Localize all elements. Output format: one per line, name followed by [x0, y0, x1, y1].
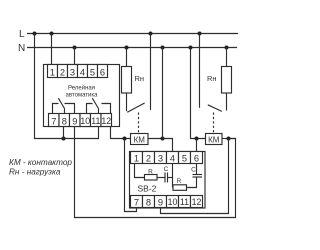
- svg-text:КМ: КМ: [134, 136, 146, 145]
- wire Rn2 to contact: [226, 93, 228, 111]
- svg-text:7: 7: [51, 116, 56, 126]
- SB-2 terminal 1: [131, 152, 143, 164]
- svg-text:C: C: [191, 167, 196, 174]
- junction dot N-A: [73, 46, 77, 50]
- node N label: [18, 43, 25, 54]
- SB-2 terminal 2: [143, 152, 155, 164]
- terminal 6: [98, 65, 108, 78]
- wire N to load Rn1: [126, 48, 128, 67]
- SB-2 terminal 7: [131, 196, 143, 208]
- svg-text:R: R: [177, 178, 182, 185]
- resistor Rn2 label: [207, 74, 217, 83]
- wire KM2 to SB-2 terminal 9: [161, 139, 229, 214]
- relay contact K2 fixed contact (terminal 12): [102, 104, 111, 114]
- contact KM1.1 blade: [127, 103, 144, 112]
- svg-text:1: 1: [134, 154, 139, 164]
- svg-text:11: 11: [91, 116, 100, 126]
- SB-2 terminal 4: [167, 152, 179, 164]
- svg-text:1: 1: [50, 68, 55, 78]
- svg-text:3: 3: [70, 68, 75, 78]
- terminal 5: [88, 65, 98, 78]
- contact KM2.1 fixed lead: [199, 34, 201, 108]
- relay contact K2 blade (terminal 11): [92, 98, 98, 113]
- wire C1 to junction: [168, 177, 173, 179]
- junction dot N drop: [161, 137, 165, 141]
- junction dot N-B: [125, 46, 129, 50]
- wire R1 to C1: [157, 177, 165, 179]
- contact KM2.1 blade: [208, 105, 222, 112]
- svg-text:8: 8: [62, 116, 67, 126]
- legend Rn: [9, 168, 61, 177]
- junction dot N-E: [225, 46, 229, 50]
- wire junction to terminal 4: [172, 164, 174, 178]
- wire L line: [27, 33, 238, 35]
- wire R2 to C2: [187, 177, 197, 188]
- mechanical link KM2 dashed: [213, 113, 215, 134]
- SB-2 terminal 3: [155, 152, 167, 164]
- resistor R1: [145, 175, 158, 181]
- junction dot L-C: [149, 32, 153, 36]
- svg-text:2: 2: [60, 68, 65, 78]
- svg-text:КМ - контактор: КМ - контактор: [9, 158, 72, 167]
- wire N long drop: [162, 48, 164, 139]
- capacitor C1 label: [164, 166, 169, 173]
- resistor Rn2: [222, 67, 232, 94]
- wire KM1 coil to N net: [148, 139, 173, 152]
- wire KM1 node to SB-2 terminal 7: [125, 139, 137, 212]
- junction dot L-B: [50, 32, 54, 36]
- svg-text:N: N: [18, 43, 25, 54]
- SB-2 terminal 10: [167, 196, 179, 208]
- terminal 10: [80, 114, 91, 127]
- svg-text:3: 3: [158, 154, 163, 164]
- wire terminal 12 to KM1: [111, 127, 131, 139]
- svg-text:C: C: [164, 166, 169, 173]
- svg-text:8: 8: [146, 198, 151, 208]
- svg-text:4: 4: [80, 68, 85, 78]
- junction dot KM1 input: [123, 137, 127, 141]
- SB-2 terminal 8: [143, 196, 155, 208]
- junction dot L-A: [33, 32, 37, 36]
- svg-text:КМ: КМ: [208, 136, 220, 145]
- svg-text:5: 5: [90, 68, 95, 78]
- capacitor C2 label: [191, 167, 196, 174]
- terminal 4: [78, 65, 88, 78]
- wire L down-left feed: [35, 34, 65, 139]
- svg-text:12: 12: [192, 197, 202, 207]
- mechanical link KM1 dashed: [138, 113, 140, 134]
- svg-text:4: 4: [170, 154, 175, 164]
- relay contact K1 fixed contact (terminal 9): [65, 104, 75, 114]
- contact KM1.1 fixed lead: [150, 34, 152, 111]
- relay contact K1 fixed lead (terminal 7): [53, 104, 59, 114]
- terminal 1: [48, 65, 58, 78]
- junction dot N-C: [161, 46, 165, 50]
- terminal 7: [49, 114, 60, 127]
- svg-text:11: 11: [180, 197, 189, 207]
- svg-text:9: 9: [158, 198, 163, 208]
- snubber unit SB-2 outer box: [130, 152, 206, 209]
- wire N to load Rn2: [226, 48, 228, 67]
- terminal 3: [68, 65, 78, 78]
- junction dot N-D: [189, 46, 193, 50]
- svg-text:Rн - нагрузка: Rн - нагрузка: [9, 168, 61, 177]
- svg-text:Релейная: Релейная: [68, 85, 95, 92]
- relay device U1 outer box: [44, 65, 120, 127]
- terminal 8: [59, 114, 70, 127]
- SB-2 terminal 9: [155, 196, 167, 208]
- resistor R1 label: [148, 169, 153, 176]
- wire terminal 8 drop: [63, 127, 65, 139]
- capacitor C2: [193, 175, 203, 178]
- svg-text:10: 10: [168, 197, 178, 207]
- wire terminal 9 long run: [75, 127, 236, 218]
- wire feed to terminal 11: [65, 127, 99, 139]
- junction dot KM2 output: [227, 137, 231, 141]
- wire SB-2 terminal 1 to R1: [135, 164, 145, 178]
- svg-text:12: 12: [101, 116, 111, 126]
- svg-text:5: 5: [182, 154, 187, 164]
- resistor R2 label: [177, 178, 182, 185]
- svg-text:Rн: Rн: [207, 74, 217, 83]
- contactor KM1: [131, 134, 149, 145]
- junction dot L-D: [198, 32, 202, 36]
- terminal 11: [91, 114, 102, 127]
- svg-text:10: 10: [80, 116, 90, 126]
- terminal 9: [70, 114, 81, 127]
- node L label: [19, 29, 25, 40]
- SB-2 terminal 6: [191, 152, 203, 164]
- SB-2 terminal 12: [191, 196, 203, 208]
- contactor KM2: [206, 134, 223, 145]
- wire junction to R2: [172, 178, 174, 188]
- svg-text:7: 7: [134, 198, 139, 208]
- wire KM2 coil output: [222, 138, 236, 140]
- wire L to relay terminal 1: [51, 34, 53, 65]
- terminal 12: [101, 114, 112, 127]
- wire N to KM2 coil: [191, 48, 206, 139]
- SB-2 terminal 5: [179, 152, 191, 164]
- SB-2 unit label: [138, 184, 157, 194]
- svg-text:автоматика: автоматика: [66, 92, 99, 98]
- resistor R2: [173, 185, 187, 191]
- svg-text:6: 6: [194, 154, 199, 164]
- relay contact K1 blade (terminal 8): [58, 98, 64, 113]
- wire C2 to terminal 6: [196, 164, 198, 175]
- svg-text:SB-2: SB-2: [138, 184, 157, 194]
- relay contact K2 fixed lead (terminal 10): [87, 104, 93, 114]
- resistor Rn1: [122, 67, 132, 94]
- svg-text:L: L: [19, 29, 25, 40]
- junction dot terminal 8: [62, 137, 66, 141]
- wire Rn1 to contact: [126, 93, 128, 111]
- legend KM: [9, 158, 72, 167]
- svg-text:2: 2: [146, 154, 151, 164]
- wire N to relay terminal 3: [74, 48, 76, 65]
- wire drop to SB-2 terminal 6: [196, 139, 198, 152]
- relay device label: [66, 85, 99, 99]
- svg-text:Rн: Rн: [135, 74, 145, 83]
- SB-2 terminal 11: [179, 196, 191, 208]
- svg-text:9: 9: [72, 116, 77, 126]
- wire N line: [27, 47, 237, 49]
- terminal 2: [58, 65, 68, 78]
- svg-text:6: 6: [100, 68, 105, 78]
- capacitor C1: [165, 173, 168, 183]
- junction dot SB-2 terminal 6: [195, 137, 199, 141]
- resistor Rn1 label: [135, 74, 145, 83]
